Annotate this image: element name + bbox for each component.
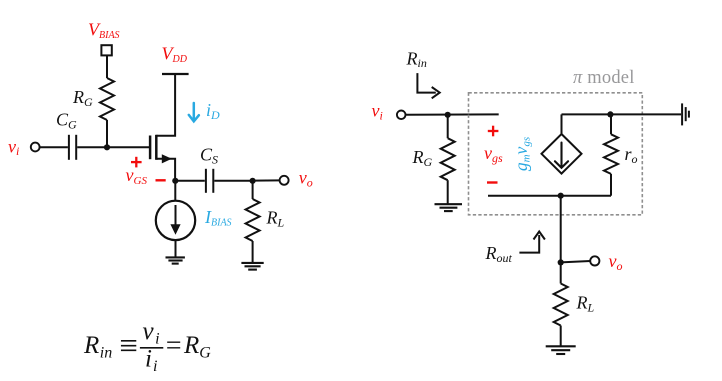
svg-text:vo: vo — [299, 168, 313, 190]
svg-text:RG: RG — [72, 87, 93, 109]
svg-text:vi: vi — [8, 136, 19, 158]
supply V_DD bar — [162, 73, 189, 75]
terminal v_i (right) — [397, 111, 406, 120]
svg-text:π model: π model — [573, 68, 635, 88]
ground (top right, rotated) — [682, 103, 689, 125]
terminal square V_BIAS — [101, 45, 111, 55]
svg-text:Rout: Rout — [485, 243, 513, 265]
label + (v_gs) — [488, 126, 499, 137]
transistor M1 — [150, 74, 175, 181]
svg-text:ii: ii — [145, 346, 157, 376]
capacitor C_G — [68, 135, 70, 160]
node input junction — [445, 112, 451, 118]
svg-text:gmvgs: gmvgs — [511, 137, 533, 171]
svg-text:RL: RL — [266, 208, 285, 230]
svg-text:CS: CS — [200, 145, 218, 167]
resistor R_G — [100, 78, 114, 120]
arrow R_out — [519, 232, 545, 253]
node gate junction — [104, 144, 110, 150]
terminal v_o (right) — [590, 256, 599, 265]
wire v_i to C_G — [40, 146, 68, 148]
svg-text:=: = — [164, 331, 183, 362]
svg-text:vi: vi — [143, 318, 160, 348]
svg-text:RG: RG — [412, 147, 433, 169]
dashed box pi model — [469, 93, 643, 215]
wire to v_o terminal (right) — [561, 261, 591, 262]
wire C_S to output node — [214, 180, 252, 182]
resistor R_L (right) — [560, 262, 562, 283]
svg-text:RG: RG — [183, 332, 211, 362]
node drain-rail junction — [607, 111, 613, 117]
svg-text:vo: vo — [609, 251, 623, 273]
wire source rail (bottom) — [488, 195, 611, 197]
label minus (v_gs) — [487, 181, 498, 183]
wire R_G to gate node — [106, 120, 108, 147]
arrow R_in — [417, 73, 439, 98]
wire drain rail (top) — [561, 114, 563, 134]
svg-text:ro: ro — [625, 144, 638, 166]
wire source to C_S — [175, 180, 205, 182]
equation fraction bar — [140, 347, 163, 349]
svg-text:Rin: Rin — [406, 49, 427, 71]
resistor r_o — [610, 114, 612, 134]
ground R_L — [241, 263, 263, 270]
controlled source g_m v_gs (diamond) — [542, 134, 582, 174]
ground I_BIAS — [166, 257, 185, 263]
wire V_BIAS square to R_G — [106, 55, 108, 78]
label minus (v_GS) — [156, 179, 166, 181]
resistor R_G (right) — [447, 115, 449, 138]
svg-text:vi: vi — [372, 101, 383, 123]
svg-text:vgs: vgs — [484, 143, 503, 165]
wire C_G to gate — [77, 146, 149, 148]
equation R_in = v_i / i_i = R_G — [83, 318, 211, 375]
ground R_G (right) — [435, 204, 463, 211]
current source I_BIAS — [156, 181, 195, 257]
node output junction — [250, 178, 256, 184]
svg-text:VBIAS: VBIAS — [88, 20, 120, 42]
ground R_L (right) — [546, 346, 576, 354]
wire v_i to gate (open end inside box) — [406, 113, 499, 115]
svg-text:≡: ≡ — [117, 329, 139, 365]
current arrow i_D — [189, 103, 199, 121]
svg-text:vGS: vGS — [126, 165, 148, 187]
svg-text:iD: iD — [206, 100, 220, 122]
wire output (down from rail) — [560, 196, 562, 263]
node source-rail junction — [558, 193, 564, 199]
resistor R_L — [252, 181, 254, 199]
svg-text:IBIAS: IBIAS — [204, 207, 232, 229]
svg-text:RL: RL — [576, 293, 595, 315]
terminal v_i — [31, 143, 40, 152]
wire node to v_o terminal — [253, 179, 280, 181]
terminal v_o — [280, 176, 289, 185]
node source junction — [172, 178, 178, 184]
svg-text:VDD: VDD — [162, 43, 188, 65]
label + (v_GS) — [131, 157, 142, 168]
capacitor C_S — [205, 169, 207, 193]
svg-text:CG: CG — [56, 110, 77, 132]
node v_o junction (right) — [558, 259, 564, 265]
svg-text:Rin: Rin — [83, 332, 112, 362]
